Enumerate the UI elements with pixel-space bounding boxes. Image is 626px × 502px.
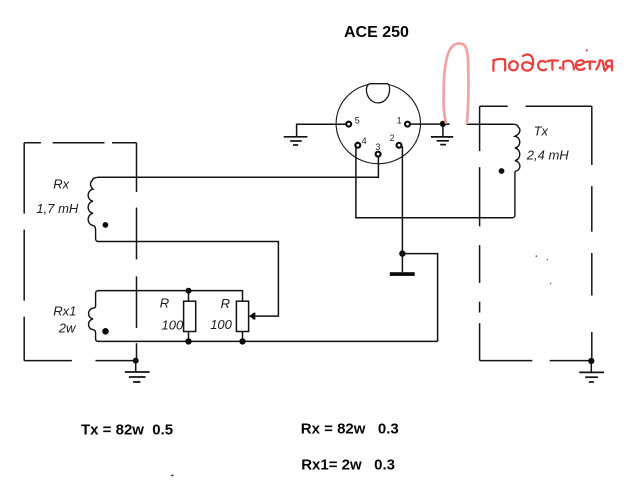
inductor Rx coil [88,177,99,241]
shield box Rx left edge [23,143,25,361]
wire R1 bottom stub [188,332,190,342]
node junction R1 bottom [185,338,191,344]
wiper arrowhead [249,312,256,320]
wire pin4 down to Tx bottom [356,148,513,218]
ground G1 (pin 5) [284,137,308,145]
svg-text:1,7 mH: 1,7 mH [36,201,79,216]
ground G2 (antenna jack) [431,137,453,145]
svg-text:Tx: Tx [534,124,549,139]
inductor Tx coil [512,124,520,218]
ground G3 chassis bar [390,272,415,276]
node junction R1 top [186,288,192,294]
node junction shield ground [133,358,139,364]
wire shield ground stub [135,361,137,372]
wire junction to chassis bar [401,254,403,273]
wire junction to ground G2 [442,124,444,136]
node phase dot Rx [103,222,109,228]
wire R1 top stub [188,291,190,302]
svg-text:ACE 250: ACE 250 [344,24,409,41]
ground G5 (Tx shield) [579,372,604,382]
wire R2 bottom stub [242,332,244,342]
annotation handwritten podst.petlya [493,49,612,71]
svg-text:Rx = 82w 0.3: Rx = 82w 0.3 [301,421,399,438]
svg-text:R: R [160,296,169,311]
svg-text:Rx1= 2w 0.3: Rx1= 2w 0.3 [301,456,395,473]
connector U1 DIN-5 body [336,83,420,163]
ground G4 (shield) [125,372,150,382]
svg-text:3: 3 [375,142,380,152]
node phase dot Rx1 [102,328,109,335]
pin 3 [376,152,381,157]
svg-text:5: 5 [355,116,360,126]
inductor Rx1 coil [89,291,99,342]
node junction Tx shield ground [588,358,594,364]
shield box Tx top edge [480,105,592,107]
annotation pink trim loop [444,44,469,124]
shield box Tx right edge [591,106,593,361]
pin 2 [397,143,402,148]
shield box Rx (dashed) top edge [24,142,136,144]
wire pin1 to junction [411,123,450,125]
node junction pin2 [399,250,405,256]
wire pin5 to left ground [297,124,346,136]
shield box Tx bottom edge [480,360,592,362]
shield box Rx right edge [136,143,138,361]
wire Tx shield ground stub [590,361,592,372]
wire pin2 down to junction [401,146,403,253]
wire junction right and down to bottom rail [402,254,437,342]
svg-text:4: 4 [362,136,367,146]
resistor R1 [184,301,196,331]
svg-text:100: 100 [162,317,184,332]
svg-text:100: 100 [210,317,232,332]
node phase dot Tx [499,168,505,174]
svg-text:2w: 2w [58,320,77,335]
connector U1 notch mask [369,80,388,86]
svg-text:Tx = 82w 0.5: Tx = 82w 0.5 [81,421,173,438]
node junction R2 bottom [239,338,245,344]
connector U1 key notch [366,84,389,103]
shield box Rx bottom edge [24,360,136,362]
pin 1 [405,122,410,127]
pin 4 [355,143,360,148]
wire Rx1 bottom rail [98,340,438,342]
wire Rx bottom to pot wiper [98,242,278,317]
node junction pin1/ground [440,121,446,127]
svg-text:Rx1: Rx1 [53,303,76,318]
shield box Tx left edge [479,106,481,360]
wire pin3 down-left to Rx coil top [98,157,378,177]
wire Rx1 top rail [98,291,243,302]
svg-text:2: 2 [390,133,395,143]
svg-text:R: R [221,296,230,311]
wire loop-right to Tx coil [466,123,513,125]
svg-text:Rx: Rx [53,177,69,192]
svg-text:1: 1 [397,116,402,126]
pin 5 [346,122,351,127]
speck marks [536,255,538,257]
resistor R2 (pot) [236,301,248,331]
svg-text:2,4 mH: 2,4 mH [526,147,570,162]
